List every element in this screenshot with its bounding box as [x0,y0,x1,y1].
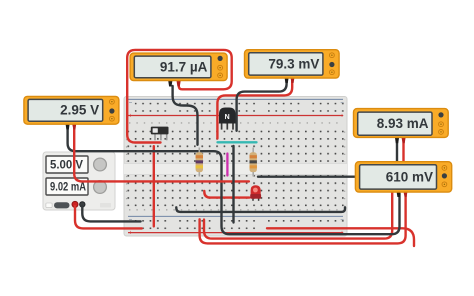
knob current [94,181,107,194]
resistor R1 [196,148,203,177]
breadboard bus holes bottom [135,220,344,229]
breadboard bottom positive bus line [128,232,343,234]
svg-text:+: + [129,231,133,237]
power switch [46,203,52,208]
breadboard main grid holes block f-j [127,175,343,206]
wire red voltmeter 79.3mV red probe to transistor base column [217,80,292,139]
breadboard bottom negative bus line [128,215,343,217]
multimeter M2 2.95V [24,96,119,129]
wire black 8.93mA black probe upper segment [396,140,398,162]
breadboard top positive bus line [128,115,343,117]
svg-text:91.7 µA: 91.7 µA [160,59,208,74]
breadboard row letters right [344,132,346,162]
svg-text:610 mV: 610 mV [386,170,433,185]
wire magenta across channel [226,154,228,176]
multimeter M5 610mV [355,162,451,197]
breadboard top negative bus line [128,98,343,100]
svg-text:+: + [340,114,344,120]
wire red vertical column4 to bottom bus [153,146,155,226]
wire red 8.93mA lower segment to bottom bus [204,193,392,239]
wire red bottom positive bus to ammeter 8.93mA [267,228,414,246]
svg-text:+: + [129,114,133,120]
knob voltage [94,158,107,171]
svg-text:−: − [340,218,344,224]
svg-text:−: − [340,101,344,107]
svg-text:2.95 V: 2.95 V [60,103,99,118]
svg-text:−: − [129,101,133,107]
wire red voltmeter 2.95V red probe to LED row [74,126,249,181]
svg-text:79.3 mV: 79.3 mV [268,56,319,71]
breadboard bus holes top [135,103,344,112]
wire red 8.93mA red probe upper segment [402,140,404,162]
wire black row j across board [176,207,345,212]
wire red loop ammeter 91.7uA red probe around meter to switch column [127,50,232,143]
wire black emitter column down to bottom bus [232,146,234,223]
wire red 610mV red probe to bottom bus [200,194,406,244]
wire black ammeter 91.7uA black probe to resistor R1 column [173,86,198,145]
breadboard bus polarity symbols [129,101,345,237]
resistor R2 [250,148,257,177]
slide switch S1 [151,127,169,141]
power supply PS1 [43,152,115,210]
wire red from power supply to bottom positive bus [75,206,142,228]
LED D1 [250,185,261,201]
breadboard [124,97,347,237]
multimeter M4 8.93mA [354,109,449,144]
wire red L resistor row to LED row [204,191,249,198]
svg-text:8.93 mA: 8.93 mA [377,116,429,131]
breadboard row letters left [126,132,128,162]
svg-text:N: N [225,114,230,121]
transistor Q1 [219,108,236,130]
wire black row f to ammeter 8.93mA (hidden behind 610mV meter) [258,175,356,177]
wire black from power supply to bottom negative bus [82,206,140,221]
breadboard main grid holes block a-e [127,131,343,162]
terminal negative [80,202,85,207]
multimeter M1 91.7uA [130,53,227,86]
wire black voltmeter 79.3mV black probe to transistor emitter column [237,80,287,131]
wire cyan transistor base row [218,141,257,143]
terminal positive [72,201,78,207]
wire black voltmeter 2.95V chain to 610mV black probe [68,126,400,234]
breadboard column numbers top [129,122,343,124]
multimeter M3 79.3mV [245,50,340,83]
svg-text:5.00 V: 5.00 V [50,159,83,171]
breadboard column numbers bottom [129,209,343,211]
svg-text:9.02 mA: 9.02 mA [50,181,86,193]
